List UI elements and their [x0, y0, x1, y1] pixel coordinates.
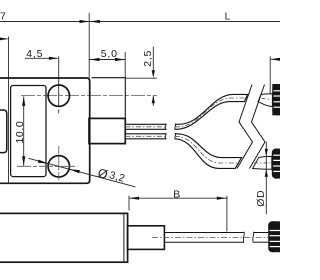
boot (cable exit) [89, 118, 125, 143]
connector middle (knurled) [272, 149, 281, 179]
left tab [0, 110, 7, 153]
cable centerline (side view) [152, 236, 268, 238]
svg-text:2,5: 2,5 [142, 50, 154, 67]
break chevron 2 [250, 85, 266, 169]
hole B (bottom) [48, 156, 69, 177]
arrowhead at inner edge [0, 37, 8, 40]
dimension ext line L right (to connector) [269, 56, 271, 94]
wire break gap (straight section) [167, 120, 175, 142]
leader / diameter dimension Ø3,2 [29, 158, 136, 187]
centerline hole B vertical [58, 146, 60, 181]
wire pair straight section (upper wire band) [125, 94, 247, 129]
centerline hole B horizontal [17, 165, 78, 167]
centerline hole A (horizontal) [21, 95, 157, 97]
svg-text:L: L [225, 12, 231, 23]
svg-text:ØD: ØD [255, 190, 267, 207]
lower branch stub to connector [253, 156, 272, 169]
svg-text:7: 7 [0, 10, 6, 22]
side view body (bottom) [0, 213, 128, 262]
cap (cable exit housing) [92, 78, 126, 119]
cable cut marks (side view) [243, 232, 253, 243]
lower wire band [125, 134, 241, 169]
body outline (top view) [0, 78, 90, 183]
extension line top edge right [125, 77, 157, 79]
dimension line 7/L (top, y=21.5) [0, 13, 280, 78]
upper branch stub to connector [258, 94, 272, 107]
cut marks straight section [165, 124, 175, 140]
side view cable [164, 233, 268, 243]
side view end cap line [123, 214, 125, 261]
connector bottom (knurled) [268, 221, 280, 252]
side view boot [128, 226, 165, 250]
upper wire centerline (dash-dot) [125, 98, 246, 127]
hole A (top) [48, 85, 69, 106]
arrowheads at 7/L junction [80, 20, 100, 23]
break chevron 1 [237, 85, 253, 169]
connector top (knurled) [272, 84, 280, 115]
lower wire centerline (dash-dot) [125, 136, 237, 163]
dimension line to inner edge (y=38.9) [0, 37, 9, 183]
dimension ØD (branch wire) [265, 142, 267, 215]
inner slot [11, 86, 46, 177]
